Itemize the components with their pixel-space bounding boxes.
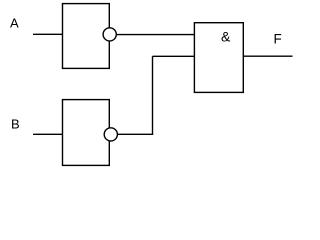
inverter U1 box [63,4,110,69]
svg-text:&: & [221,29,231,45]
inversion bubble U1 [103,28,116,41]
inversion bubble U2 [104,128,117,141]
wire U2 output horizontal [118,133,153,135]
wire vertical riser [152,56,154,134]
svg-text:A: A [10,15,19,30]
wire U1 output to AND gate upper input [117,34,194,36]
AND gate U3 box [194,23,243,93]
wire B input [33,133,63,135]
wire into AND gate lower input [153,55,195,57]
inverter U2 box [63,100,110,166]
wire A input [33,33,63,35]
svg-text:B: B [11,117,20,132]
wire F output [243,55,292,57]
svg-text:F: F [274,32,282,47]
